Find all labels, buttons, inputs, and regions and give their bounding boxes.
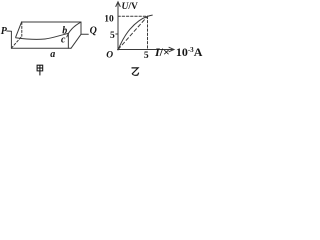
dashed secant O to (5,10): [118, 16, 147, 49]
conductor block front-right edge: [67, 33, 69, 48]
x axis arrowhead: [169, 47, 174, 51]
x axis: [118, 49, 174, 51]
conductor block back-right edge: [80, 22, 82, 34]
label 甲 (drawn strokes): [37, 65, 43, 75]
wire P lead: [7, 30, 12, 32]
svg-text:U/V: U/V: [122, 2, 139, 12]
conductor block front-left edge: [10, 32, 12, 49]
svg-text:5: 5: [110, 31, 115, 41]
svg-text:5: 5: [144, 51, 149, 61]
tick at U=5: [116, 33, 118, 35]
conductor block top-left edge: [16, 22, 22, 37]
dashed gridline U=10: [118, 15, 148, 17]
svg-text:I/× 10-3A: I/× 10-3A: [154, 45, 203, 59]
conductor block top-right edge: [67, 22, 81, 37]
svg-text:Q: Q: [90, 25, 97, 36]
y axis arrowhead: [116, 2, 120, 7]
conductor block bottom-right edge: [71, 34, 81, 48]
dashed vertical I=5: [147, 16, 149, 49]
y axis: [117, 2, 119, 50]
svg-text:P: P: [1, 26, 8, 37]
svg-text:a: a: [50, 49, 55, 60]
svg-text:c: c: [61, 35, 66, 46]
conductor block back-top edge: [22, 21, 81, 23]
conductor block front-top edge: [16, 33, 69, 39]
label 乙 (drawn strokes): [132, 68, 139, 75]
wire Q lead: [81, 33, 88, 35]
hidden bottom-left edge (dashed): [12, 36, 22, 48]
svg-text:O: O: [106, 51, 113, 61]
svg-text:10: 10: [104, 15, 114, 25]
graph axes: [116, 2, 174, 52]
conductor block front-bottom edge: [11, 47, 71, 49]
hidden back-left vertical edge (dashed): [21, 22, 23, 36]
U-I curve: [118, 15, 152, 49]
